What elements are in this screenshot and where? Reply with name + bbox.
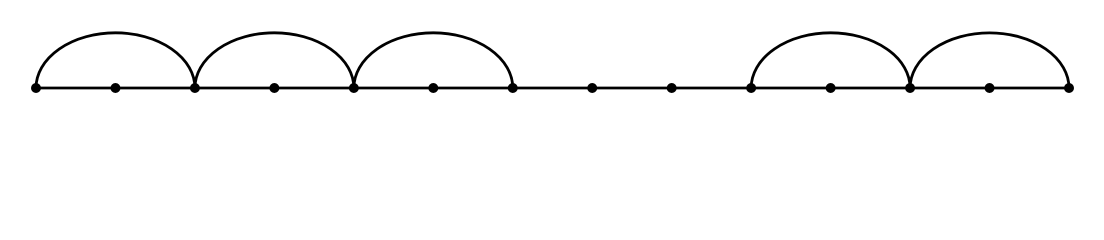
arc A3 (dot 4 to dot 6) [354,33,513,88]
dot 11 [905,83,915,93]
dot 5 [428,83,438,93]
dot 4 [349,83,359,93]
dot 3 [269,83,279,93]
dot 7 [587,83,597,93]
dot 6 [508,83,518,93]
dot 2 [190,83,200,93]
arc A4 (dot 9 to dot 11) [751,33,910,88]
baseline [36,87,1069,90]
dot 8 [667,83,677,93]
arc A1 (dot 0 to dot 2) [36,33,195,88]
arc A5 (dot 11 to dot 13) [910,33,1069,88]
dot 1 [110,83,120,93]
dot 13 [1064,83,1074,93]
dot 10 [826,83,836,93]
dot 0 [31,83,41,93]
dot 9 [746,83,756,93]
arc A2 (dot 2 to dot 4) [195,33,354,88]
dot 12 [985,83,995,93]
